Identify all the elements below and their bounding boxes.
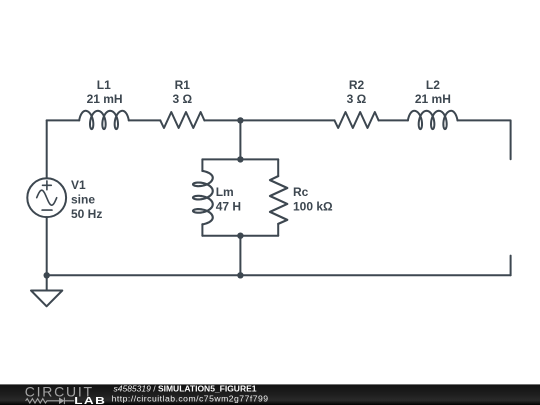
svg-text:http://circuitlab.com/c75wm2g7: http://circuitlab.com/c75wm2g77f799 xyxy=(112,394,269,404)
svg-text:50 Hz: 50 Hz xyxy=(71,207,102,221)
footer bar xyxy=(0,384,540,405)
svg-text:3 Ω: 3 Ω xyxy=(172,92,192,106)
svg-text:V1: V1 xyxy=(71,178,86,192)
svg-text:R1: R1 xyxy=(175,78,191,92)
wire V1 bottom to ground node xyxy=(46,217,48,275)
logo resistor-diode doodle xyxy=(26,398,74,405)
wire parallel bottom rail xyxy=(202,235,278,237)
ground xyxy=(31,291,62,307)
svg-text:Rc: Rc xyxy=(293,185,309,199)
wire top rail to Lm xyxy=(201,159,203,171)
resistor R2 xyxy=(335,112,379,128)
svg-text:21 mH: 21 mH xyxy=(87,92,123,106)
wire ground stub xyxy=(46,275,48,290)
svg-text:3 Ω: 3 Ω xyxy=(347,92,367,106)
svg-text:L2: L2 xyxy=(426,78,440,92)
svg-text:47 H: 47 H xyxy=(216,200,241,214)
wire node A down to parallel top rail xyxy=(239,120,241,159)
resistor Rc xyxy=(270,176,287,224)
svg-text:s4585319 / SIMULATION5_FIGURE1: s4585319 / SIMULATION5_FIGURE1 xyxy=(114,383,257,393)
svg-text:R2: R2 xyxy=(349,78,365,92)
svg-text:Lm: Lm xyxy=(216,185,234,199)
wire Lm to bottom rail xyxy=(201,224,203,235)
wire R2 to L2 xyxy=(379,119,408,121)
wire top rail to Rc xyxy=(277,159,279,176)
node parallel bottom junction dot xyxy=(237,233,243,239)
logo diode triangle xyxy=(59,398,64,405)
wire top rail left corner to L1 xyxy=(47,119,79,121)
voltage source V1 xyxy=(27,178,66,217)
wire R1 to R2 through node A xyxy=(204,119,334,121)
wire L2 to top-right corner with open stub down xyxy=(458,120,511,159)
inductor Lm xyxy=(193,171,213,224)
wire parallel section down to bottom rail xyxy=(239,236,241,276)
wire bottom-right open stub xyxy=(510,256,512,276)
wire L1 to R1 xyxy=(129,119,161,121)
node A junction dot xyxy=(237,117,243,123)
svg-text:sine: sine xyxy=(71,192,95,206)
node parallel top junction dot xyxy=(237,156,243,162)
wire left drop to V1 top xyxy=(46,120,48,178)
inductor L2 xyxy=(408,111,458,129)
svg-text:21 mH: 21 mH xyxy=(415,92,451,106)
wire parallel top rail xyxy=(202,158,278,160)
resistor R1 xyxy=(160,112,204,128)
node ground junction dot xyxy=(44,272,50,278)
node bottom rail junction dot xyxy=(237,272,243,278)
svg-text:100 kΩ: 100 kΩ xyxy=(293,200,333,214)
inductor L1 xyxy=(79,111,129,129)
wire Rc to bottom rail xyxy=(277,224,279,236)
svg-text:LAB: LAB xyxy=(74,394,106,405)
wire bottom rail xyxy=(47,274,511,276)
svg-text:L1: L1 xyxy=(97,78,111,92)
